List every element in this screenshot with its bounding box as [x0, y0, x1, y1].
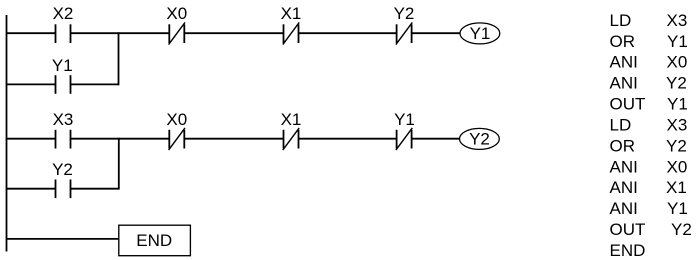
wire branch1 rail to Y1 contact: [7, 83, 56, 85]
svg-text:OUT: OUT: [610, 95, 646, 114]
coil Y2: [460, 128, 500, 149]
coil Y1: [460, 23, 500, 44]
END box: [119, 225, 191, 256]
svg-text:X3: X3: [667, 115, 688, 134]
contact X2 (NO): [56, 24, 71, 43]
svg-text:X1: X1: [666, 178, 687, 197]
contact X1 rung2 (NC): [283, 128, 299, 150]
svg-text:X0: X0: [667, 157, 688, 176]
svg-text:Y2: Y2: [394, 4, 415, 23]
wire Y1 contact to coil Y2: [412, 138, 460, 140]
wire branch1 vertical junction: [118, 32, 120, 85]
svg-text:Y1: Y1: [470, 24, 491, 43]
wire X1 to Y2: [299, 32, 397, 34]
wire X1 to Y1 contact rung2: [299, 138, 397, 140]
left power rail: [6, 15, 8, 252]
svg-text:Y2: Y2: [52, 160, 73, 179]
contact X0 rung2 (NC): [169, 128, 185, 150]
wire X0 to X1 rung2: [184, 138, 283, 140]
wire X2 to X0: [71, 32, 170, 34]
svg-text:END: END: [136, 231, 172, 250]
svg-text:ANI: ANI: [610, 178, 638, 197]
wire branch2 rail to Y2 contact: [7, 188, 56, 190]
svg-text:LD: LD: [610, 11, 632, 30]
wire X0 to X1: [184, 32, 283, 34]
svg-text:ANI: ANI: [610, 157, 638, 176]
contact X3 (NO): [56, 130, 71, 149]
svg-text:X1: X1: [281, 4, 302, 23]
svg-text:Y1: Y1: [667, 95, 688, 114]
wire rung2 rail to X3: [7, 138, 56, 140]
svg-text:Y1: Y1: [667, 199, 688, 218]
svg-text:ANI: ANI: [610, 53, 638, 72]
svg-text:LD: LD: [610, 115, 632, 134]
wire Y2 to coil Y1: [412, 32, 460, 34]
contact X1 (NC): [283, 22, 299, 44]
svg-text:ANI: ANI: [610, 199, 638, 218]
wire rung1 rail to X2: [7, 32, 56, 34]
wire Y2 contact to junction: [71, 188, 119, 190]
contact Y2 (NO): [56, 180, 71, 199]
svg-text:Y1: Y1: [394, 110, 415, 129]
svg-text:END: END: [610, 241, 646, 260]
wire X3 to X0: [71, 138, 170, 140]
svg-text:OUT: OUT: [610, 220, 646, 239]
svg-text:X3: X3: [667, 11, 688, 30]
contact Y2 (NC): [396, 22, 412, 44]
wire Y1 contact to junction: [71, 83, 119, 85]
svg-text:X0: X0: [166, 110, 187, 129]
svg-text:Y1: Y1: [667, 32, 688, 51]
svg-text:ANI: ANI: [610, 74, 638, 93]
contact Y1 (NO): [56, 75, 71, 94]
svg-text:Y2: Y2: [469, 129, 490, 148]
contact Y1 (NC): [396, 128, 412, 150]
svg-text:X0: X0: [166, 4, 187, 23]
svg-text:Y2: Y2: [666, 74, 687, 93]
svg-text:Y2: Y2: [666, 136, 687, 155]
wire branch2 vertical junction: [118, 138, 120, 190]
svg-text:Y2: Y2: [671, 220, 692, 239]
svg-text:OR: OR: [610, 136, 636, 155]
svg-text:Y1: Y1: [52, 56, 73, 75]
svg-text:X1: X1: [281, 110, 302, 129]
svg-text:OR: OR: [610, 32, 636, 51]
svg-text:X3: X3: [53, 110, 74, 129]
svg-text:X2: X2: [53, 4, 74, 23]
wire END rung: [7, 238, 119, 240]
svg-text:X0: X0: [667, 53, 688, 72]
contact X0 (NC): [169, 22, 185, 44]
